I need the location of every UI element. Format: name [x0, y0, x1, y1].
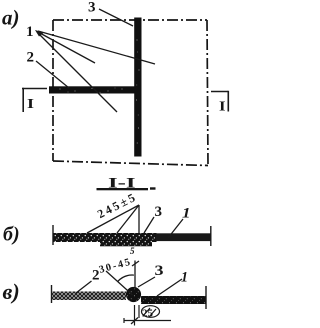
svg-text:3: 3	[155, 204, 163, 220]
svg-text:3: 3	[88, 0, 96, 16]
svg-text:в): в)	[3, 279, 20, 304]
svg-text:2: 2	[27, 50, 35, 66]
svg-text:б): б)	[3, 224, 20, 246]
svg-text:1: 1	[182, 206, 191, 222]
svg-text:I: I	[27, 97, 34, 112]
svg-text:I: I	[219, 100, 226, 115]
svg-text:а): а)	[2, 6, 20, 30]
svg-text:1: 1	[26, 24, 34, 40]
svg-text:3: 3	[155, 263, 164, 279]
svg-text:25: 25	[142, 308, 154, 320]
svg-text:30-45: 30-45	[98, 257, 133, 276]
svg-text:5: 5	[130, 246, 135, 256]
svg-text:1: 1	[181, 270, 188, 286]
